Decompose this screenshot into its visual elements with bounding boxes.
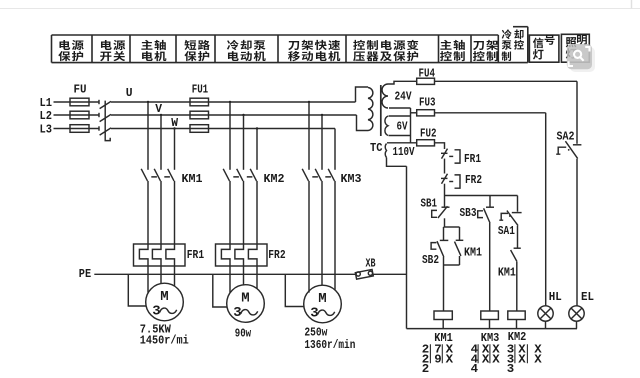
transformer TC core [380,85,382,136]
svg-text:U: U [126,86,133,100]
illumination lamp EL [569,306,584,321]
svg-text:KM1: KM1 [498,265,516,279]
signal lamp HL [538,306,553,321]
zone label 主轴控制 [440,40,465,61]
svg-text:FU3: FU3 [419,96,436,110]
thermal contact FR1 (NC) [441,149,460,164]
fuse FU3 [417,110,435,116]
wire SA2 to EL [576,159,578,306]
wire FR1 to M1 pole2 [160,266,162,283]
self-hold branch bottom [444,264,460,266]
svg-text:M: M [160,289,168,305]
zone label 刀架快速移动电机 [288,40,340,61]
wire HL to return [545,321,547,328]
wire branch to KM1 aux [459,227,461,240]
svg-text:HL: HL [549,290,562,304]
wire PE to M3 frame [285,274,304,306]
wire L1 to switch [54,101,100,103]
switch SA2 (lighting) [556,141,581,158]
svg-text:KM2: KM2 [264,172,285,186]
zone label 照明灯 [566,35,587,59]
zone box 照明灯 [561,34,589,62]
wire U to TC primary [356,87,369,102]
contactor KM1 main contacts [141,102,174,244]
wire 110V winding to FU2 [387,142,417,144]
fuse FU pole L2 [70,111,89,119]
svg-text:FR2: FR2 [465,173,482,187]
svg-text:TC: TC [370,141,383,155]
svg-text:FR1: FR1 [187,248,204,262]
wire L3 to switch [54,128,100,130]
svg-text:X: X [446,352,454,366]
wire L2 to switch [54,114,100,116]
wire node to SB2 [443,227,445,240]
bus U [111,101,356,103]
wire KM1 aux to branch bottom [459,256,461,265]
contact table KM3 [471,343,501,377]
fuse FU1 pole U [190,98,209,106]
svg-text:FU: FU [74,82,87,96]
zone label 电源保护 [58,40,83,61]
zone label 信号灯 [533,35,555,60]
wire FR1 to FR2 [444,159,446,174]
svg-text:KM3: KM3 [341,172,362,186]
svg-text:M: M [241,291,249,307]
svg-text:2: 2 [422,362,429,376]
wire SA1 to KM1 aux [517,226,519,248]
motor M3 [304,285,342,323]
wire branch to SB3 [489,196,491,207]
selector switch SA1 [499,211,521,226]
wire 24V winding to FU4 [388,81,417,84]
TC secondary junction bus [410,108,412,143]
watermark magnifier icon [567,44,595,72]
svg-text:3: 3 [507,362,514,376]
contact table KM1 [422,343,454,377]
svg-text:XB: XB [366,256,376,270]
wire W bus corner to KM3 [334,128,336,130]
wire 110V winding return [387,158,407,167]
svg-text:FU4: FU4 [419,67,436,81]
wire control branch rail [445,195,518,197]
wire FU4 riser to SA2 [576,81,578,144]
junction U/KM1 [147,101,149,103]
pushbutton SB3 (coolant NO) [478,207,494,223]
coil KM1 [434,311,452,320]
wire FR1 to M1 pole1 [147,266,149,293]
svg-text:4: 4 [471,362,479,376]
motor M2 [227,285,265,323]
wire coil KM2 to return [516,320,518,329]
svg-text:110V: 110V [393,145,416,159]
svg-text:FR1: FR1 [464,152,481,166]
fuse FU pole L1 [70,98,89,106]
junction V/KM2 [242,114,244,116]
wire FR2 to M2 pole3 [256,266,258,289]
coil KM2 [508,311,525,320]
bus W [111,128,335,130]
pushbutton SB1 (stop NC) [432,206,450,218]
wire coil KM1 to return [442,320,444,329]
svg-text:9: 9 [434,352,441,366]
svg-text:SB3: SB3 [460,206,477,220]
contactor KM2 main contacts [223,102,257,244]
pushbutton SB2 (start NO) [431,240,448,257]
junction V/KM1 [160,114,162,116]
svg-text:EL: EL [581,290,594,304]
thermal contact FR2 (NC) [441,174,460,189]
wire FU4 to lamp branch [435,80,578,82]
zone label 刀架控制 [473,40,498,61]
page corner tick [631,0,633,9]
fuse FU2 [417,140,435,146]
svg-text:SA1: SA1 [498,224,515,238]
coil KM3 [481,311,499,320]
self-hold branch top [444,226,460,228]
svg-text:L3: L3 [40,122,53,136]
wire SB2 to branch bottom [443,257,445,265]
wire coil KM3 to return [489,320,491,329]
transformer TC 24V winding [382,84,388,108]
wire EL to return [576,321,578,328]
wire KM1 aux to coil KM2 [516,262,518,311]
zone label 控制电源变压器及保护 [353,40,418,61]
svg-text:L2: L2 [40,109,53,123]
page top divider [0,8,640,10]
function zone table frame [52,27,528,63]
svg-text:X: X [518,352,526,366]
wire 24V winding return [389,107,411,109]
transformer TC 6V winding [385,116,388,136]
wire FR2 to M2 pole2 [243,266,245,285]
wire PE to M2 frame [213,274,227,307]
svg-text:1360r/min: 1360r/min [304,338,355,352]
control return riser [406,166,408,328]
zone label 电源开关 [100,40,125,61]
wire FR2 to node [444,184,446,207]
zone label 冷却泵控制 [502,29,524,61]
wire SB3 to coil KM3 [489,223,491,311]
contact table KM2 [507,343,542,377]
connector XB [355,269,373,279]
transformer TC 110V winding [385,144,386,158]
svg-text:24V: 24V [395,89,413,103]
junction W/KM1 [173,127,175,129]
svg-text:FR2: FR2 [268,248,285,262]
transformer TC primary winding [368,88,373,131]
svg-text:KM1: KM1 [464,245,482,259]
thermal relay FR1 heaters [134,244,186,266]
svg-text:X: X [492,352,500,366]
junction U/KM3 [308,101,310,103]
svg-text:FU1: FU1 [192,82,209,96]
fuse FU1 pole V [190,111,209,119]
svg-text:SA2: SA2 [557,129,575,143]
svg-text:1450r/mi: 1450r/mi [140,333,189,347]
zone label 冷却泵电动机 [227,40,266,61]
zone label 短路保护 [184,40,209,61]
wire V to TC primary [357,115,369,131]
svg-text:X: X [482,352,490,366]
wire HL branch [545,113,547,306]
junction W/KM2 [256,127,258,129]
contactor KM3 main contacts [302,102,335,293]
wire 6V winding bottom lead [389,135,411,137]
earth bus PE [94,273,406,275]
svg-text:M: M [318,291,326,307]
fuse FU1 pole W [190,125,209,133]
fuse FU pole L3 [70,125,89,133]
contactor KM1 interlock contact (NO) [511,248,521,261]
wire to FU3 [411,112,417,114]
thermal relay FR2 heaters [216,244,268,266]
junction U/KM2 [229,101,231,103]
svg-text:SB2: SB2 [422,253,439,267]
svg-text:PE: PE [79,267,91,281]
svg-text:KM1: KM1 [182,172,203,186]
wire 6V winding top lead [389,115,411,117]
bus V [111,114,357,116]
svg-text:FU2: FU2 [420,127,437,141]
svg-text:X: X [534,352,542,366]
wire PE to M1 frame [128,274,146,306]
wire SB1 to self-hold branch [444,218,446,227]
wire FU2 to FR1 [435,143,445,149]
wire branch corner to SA1 [517,196,519,212]
motor M1 [146,283,184,321]
svg-text:90w: 90w [235,327,252,341]
control return bus [407,328,578,330]
zone box 信号灯 [529,35,559,62]
zone label 主轴电机 [141,40,166,61]
svg-text:SB1: SB1 [421,196,438,210]
svg-text:L1: L1 [40,96,53,110]
wire FR1 to M1 pole3 [174,266,176,286]
fuse FU4 [417,78,435,84]
svg-text:6V: 6V [397,119,409,133]
wire FR2 to M2 pole1 [229,266,231,293]
contactor KM1 self-hold contact (NO) [455,240,464,256]
disconnect switch QS [99,100,111,141]
svg-text:V: V [155,102,162,116]
wire to coil KM1 [443,265,445,311]
wire FU3 to HL branch [435,112,546,114]
junction V/KM3 [321,114,323,116]
